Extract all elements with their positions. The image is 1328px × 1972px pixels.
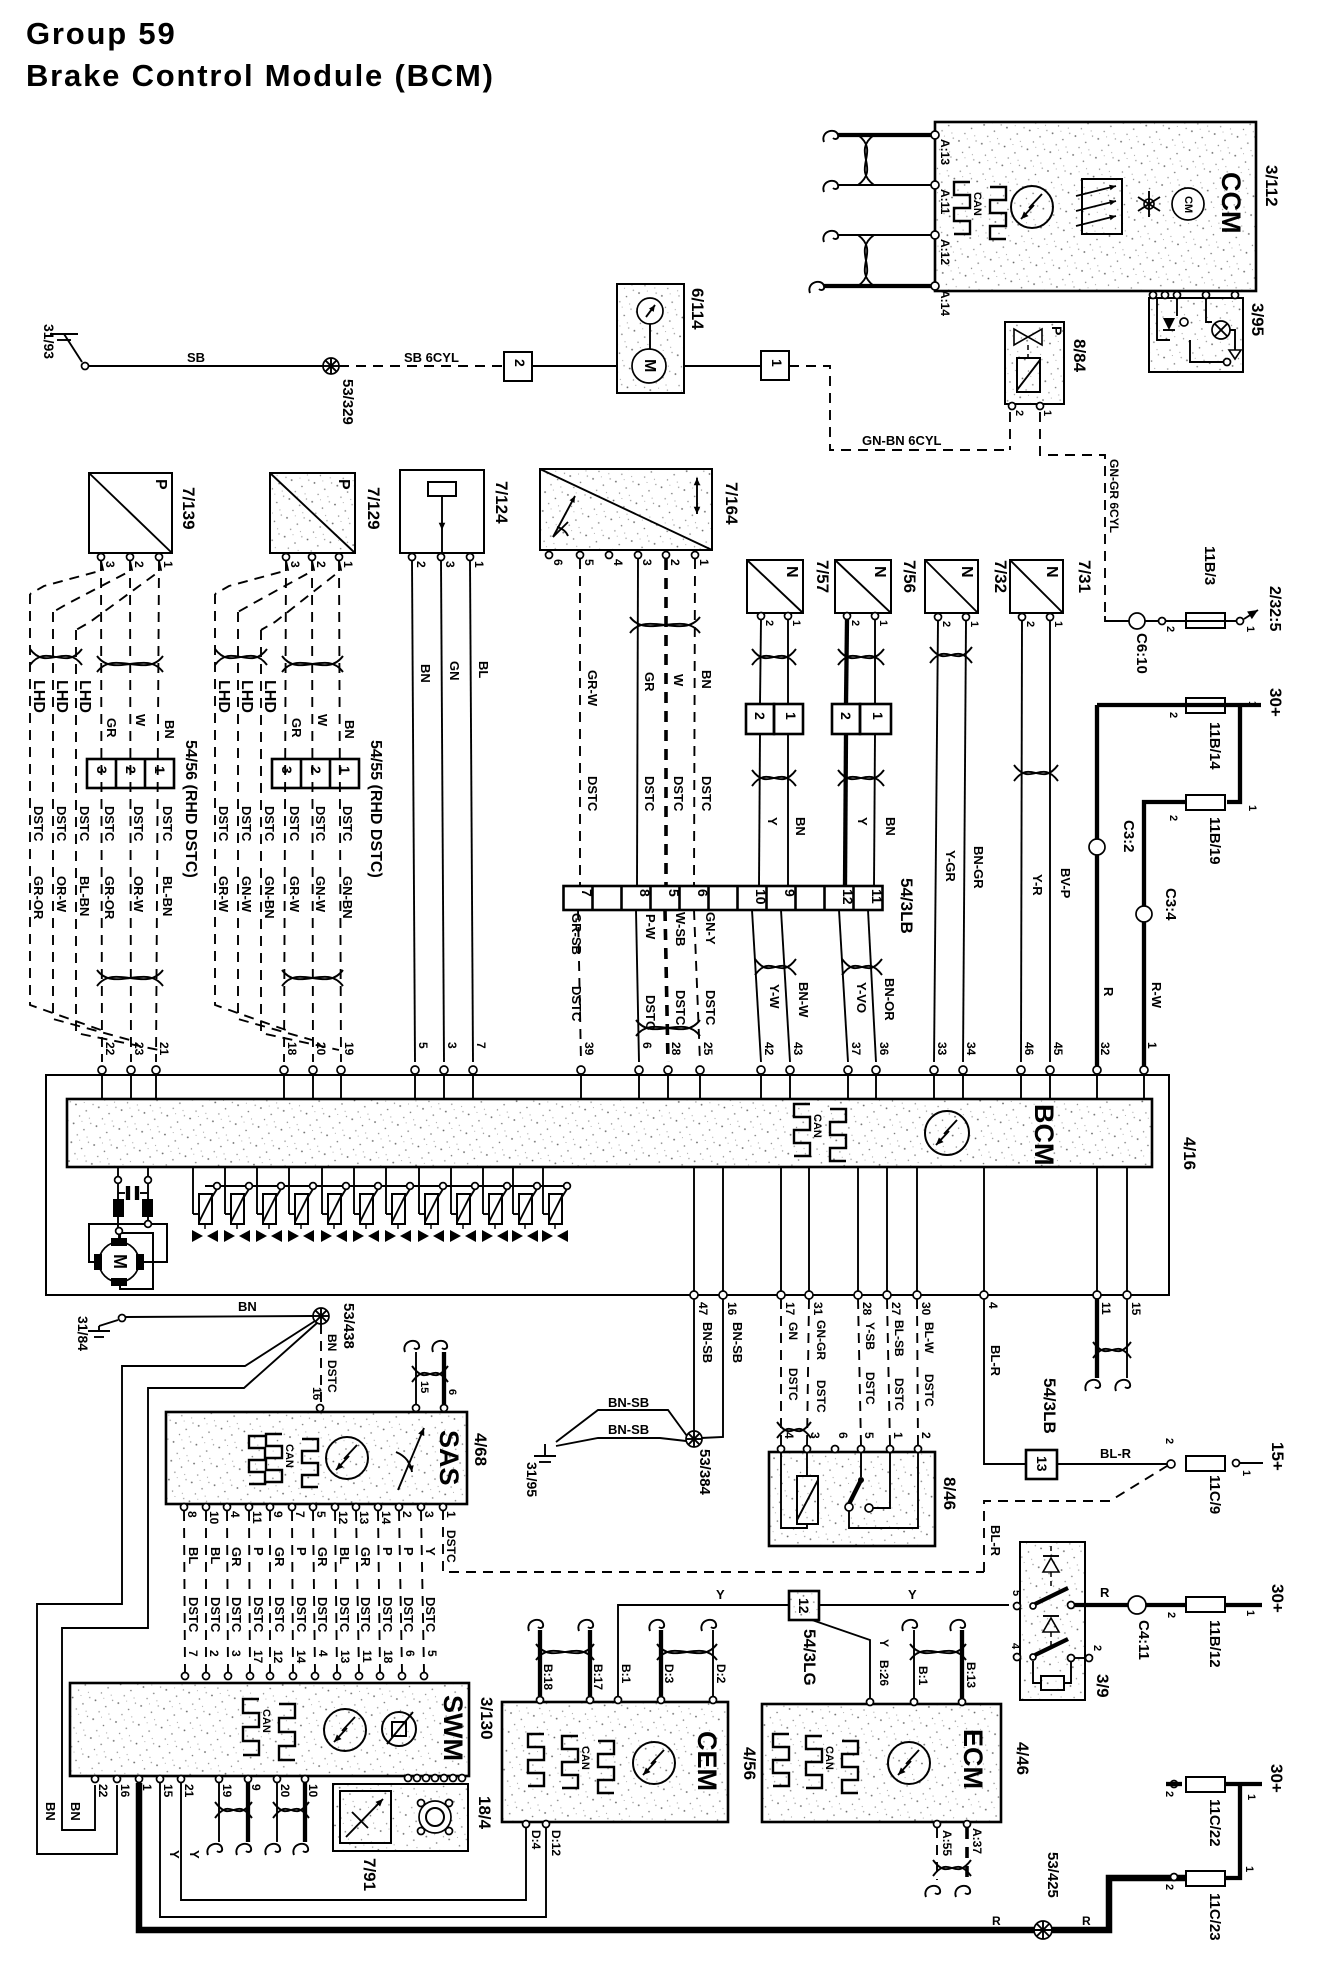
CCM CAN symbol: [954, 182, 970, 234]
svg-text:2: 2: [919, 1432, 933, 1439]
svg-text:2: 2: [400, 1511, 414, 1518]
SWM K-line symbol: [324, 1709, 366, 1751]
wire CEM D:3 (cut, thick): [659, 1630, 663, 1696]
BCM inner strip: [67, 1099, 1152, 1167]
svg-text:18: 18: [381, 1650, 395, 1664]
wire 7/164-3 GR: [637, 559, 638, 886]
wire SWM 21 Y to CEM D:4: [181, 1783, 526, 1900]
svg-text:4: 4: [228, 1511, 242, 1518]
svg-text:1: 1: [1246, 701, 1258, 707]
wire BL-R DSTC (dashed) SAS1 to 11C/9: [443, 1510, 984, 1572]
fuse 11C/22: [1186, 1777, 1225, 1792]
svg-text:DSTC: DSTC: [423, 1597, 438, 1633]
svg-text:BN: BN: [793, 817, 808, 836]
svg-text:GR: GR: [315, 1547, 330, 1567]
SAS pin 1: [440, 1504, 447, 1511]
3/9 pin 2: [1068, 1655, 1075, 1662]
svg-text:7/32: 7/32: [991, 560, 1010, 593]
wire 11C/23 to 11C/22 (thick): [1225, 1784, 1240, 1878]
svg-text:Y: Y: [167, 1850, 182, 1859]
ECM squarewave symbol: [773, 1734, 789, 1786]
svg-text:BL-R: BL-R: [988, 1345, 1003, 1377]
svg-text:DSTC: DSTC: [703, 990, 718, 1026]
svg-text:C6:10: C6:10: [1133, 633, 1150, 674]
svg-text:11C/9: 11C/9: [1206, 1475, 1223, 1514]
svg-text:16: 16: [725, 1302, 739, 1316]
wire A:14 (thick): [824, 284, 931, 288]
svg-text:Y: Y: [855, 817, 870, 826]
svg-text:DSTC: DSTC: [699, 776, 714, 812]
svg-text:4: 4: [316, 1650, 330, 1657]
svg-text:DSTC: DSTC: [673, 990, 688, 1026]
module 3/95 box: [1149, 298, 1243, 372]
svg-text:B:13: B:13: [964, 1662, 978, 1688]
svg-text:54/3LB: 54/3LB: [897, 878, 916, 934]
wire 7/31-2 Y-R: [1021, 621, 1022, 1062]
svg-text:BN: BN: [342, 720, 357, 739]
twisted pair D:3/D:2: [657, 1644, 717, 1660]
svg-text:DSTC: DSTC: [401, 1597, 416, 1633]
svg-text:A:13: A:13: [938, 139, 952, 165]
wire 54/3LB-7 GR-SB DSTC to BCM 39: [578, 910, 581, 1062]
svg-text:2: 2: [1165, 1612, 1177, 1618]
wire 7/124-3 GN: [441, 561, 444, 1062]
svg-text:54/3LB: 54/3LB: [1040, 1378, 1059, 1434]
wire 54/3LB-8 P-W to BCM 6: [636, 910, 639, 1062]
twisted pair A:12/A:14: [858, 235, 874, 286]
fuse 11B/14: [1186, 698, 1225, 713]
svg-text:CAN: CAN: [579, 1746, 591, 1770]
svg-text:11: 11: [869, 889, 885, 904]
ECM top pins: [867, 1699, 874, 1706]
svg-text:18: 18: [285, 1042, 299, 1056]
wire Y to 3/9 pin 5: [819, 1604, 1009, 1606]
svg-text:13: 13: [357, 1511, 371, 1525]
svg-text:Y-W: Y-W: [767, 984, 782, 1009]
svg-text:43: 43: [791, 1042, 805, 1056]
svg-text:BN-SB: BN-SB: [700, 1322, 715, 1363]
svg-text:2: 2: [1163, 1884, 1175, 1890]
twisted pair B:1/B:13: [910, 1644, 966, 1660]
svg-text:2: 2: [414, 561, 428, 568]
svg-text:7/124: 7/124: [492, 481, 511, 524]
7/56 pins: [844, 613, 851, 620]
svg-text:B:17: B:17: [591, 1664, 605, 1690]
wire BCM 27 BL-SB DSTC: [887, 1299, 890, 1445]
svg-text:GN-W: GN-W: [313, 876, 328, 913]
module BCM 4/16 outer box: [46, 1075, 1169, 1295]
8/46 internal relay: [781, 1453, 807, 1528]
svg-text:1: 1: [1244, 1610, 1256, 1616]
svg-text:DSTC: DSTC: [444, 1530, 458, 1563]
CEM squarewave symbol: [528, 1734, 544, 1786]
svg-text:GN-BN 6CYL: GN-BN 6CYL: [862, 433, 942, 448]
svg-text:1: 1: [161, 561, 175, 568]
wire CEM B:1 Y to 54/3LG 12: [618, 1605, 789, 1696]
wire BCM 16 BN-SB: [701, 1299, 723, 1438]
svg-text:53/438: 53/438: [340, 1303, 357, 1349]
svg-text:BL: BL: [186, 1547, 201, 1564]
module SWM 3/130 box: [70, 1683, 469, 1776]
svg-text:1: 1: [790, 620, 802, 626]
svg-text:7/164: 7/164: [722, 482, 741, 525]
3/9 diode 2: [1043, 1618, 1059, 1632]
svg-text:2: 2: [1167, 815, 1179, 821]
svg-text:DSTC: DSTC: [294, 1597, 309, 1633]
svg-text:5: 5: [425, 1650, 439, 1657]
SWM bottom pins: [92, 1776, 99, 1783]
svg-text:BN: BN: [418, 664, 433, 683]
svg-text:GR: GR: [642, 672, 657, 692]
7/164 pins: [546, 552, 553, 559]
svg-text:A:37: A:37: [970, 1828, 984, 1854]
wire 7/124-2 BN: [412, 561, 415, 1062]
svg-text:10: 10: [753, 889, 769, 905]
wire to 15+: [1233, 1460, 1240, 1467]
svg-text:23: 23: [132, 1042, 146, 1056]
BCM solenoid valve array: [205, 1185, 568, 1187]
svg-text:3: 3: [422, 1511, 436, 1518]
wire CEM D:2 (cut): [712, 1630, 714, 1696]
svg-text:DSTC: DSTC: [671, 776, 686, 812]
svg-text:SB 6CYL: SB 6CYL: [404, 350, 459, 365]
svg-text:3/130: 3/130: [477, 1697, 496, 1740]
svg-text:2: 2: [314, 561, 328, 568]
connector C3:4: [1136, 906, 1152, 922]
svg-text:GN-W: GN-W: [239, 876, 254, 913]
svg-text:OR-W: OR-W: [131, 876, 146, 913]
svg-text:11: 11: [360, 1650, 374, 1663]
wire BCM 11 (thick): [1095, 1299, 1099, 1378]
svg-text:53/384: 53/384: [696, 1449, 713, 1496]
svg-text:GN: GN: [447, 661, 462, 681]
svg-text:3: 3: [279, 766, 295, 774]
svg-text:4/16: 4/16: [1180, 1137, 1199, 1170]
SAS CAN symbol: [266, 1434, 282, 1482]
svg-text:BL-W: BL-W: [922, 1322, 936, 1354]
svg-text:SWM: SWM: [438, 1695, 468, 1761]
svg-text:DSTC: DSTC: [287, 806, 302, 842]
module SAS 4/68 box: [166, 1412, 467, 1504]
svg-text:DSTC: DSTC: [216, 806, 231, 842]
svg-text:DSTC: DSTC: [186, 1597, 201, 1633]
svg-text:11B/12: 11B/12: [1206, 1620, 1223, 1668]
svg-text:21: 21: [182, 1784, 196, 1798]
wire ECM B:1 (cut): [913, 1630, 915, 1698]
svg-text:2: 2: [308, 766, 324, 774]
svg-text:BL: BL: [208, 1547, 223, 1564]
svg-text:N: N: [871, 566, 888, 578]
svg-text:1: 1: [877, 620, 889, 626]
svg-text:12: 12: [840, 889, 856, 905]
svg-text:DSTC: DSTC: [160, 806, 175, 842]
svg-text:GN-GR 6CYL: GN-GR 6CYL: [1107, 459, 1121, 533]
wire bus to 11C/23 (extra thick): [1052, 1878, 1185, 1930]
svg-text:GR-W: GR-W: [216, 876, 231, 913]
svg-text:4: 4: [611, 559, 625, 566]
svg-text:SB: SB: [187, 350, 205, 365]
SAS-SWM wiring (12 DSTC wires): [181, 1504, 188, 1511]
wheel sensor 7/31 box: [1010, 560, 1063, 613]
3/95 pins: [1150, 292, 1157, 299]
wire 7/56-2 Y (thick): [846, 620, 847, 704]
svg-text:6: 6: [695, 889, 711, 897]
svg-text:8/46: 8/46: [940, 1477, 959, 1510]
svg-text:11: 11: [250, 1511, 264, 1524]
SAS K-line symbol: [326, 1437, 368, 1479]
svg-text:27: 27: [889, 1302, 903, 1316]
wire SWM 15 Y to CEM D:12: [160, 1783, 546, 1917]
wire 7/57-2 Y: [760, 620, 761, 704]
svg-text:P: P: [251, 1547, 266, 1556]
svg-text:DSTC: DSTC: [642, 776, 657, 812]
8/84 valve symbol: [1014, 329, 1028, 345]
svg-text:GR: GR: [272, 1547, 287, 1567]
wire rail 2 (thick): [1227, 707, 1240, 802]
svg-text:2: 2: [123, 766, 139, 774]
svg-text:32: 32: [1098, 1042, 1112, 1056]
svg-text:B:1: B:1: [619, 1664, 633, 1684]
splice 53/329: [323, 358, 339, 374]
svg-text:3: 3: [640, 559, 654, 566]
svg-text:DSTC: DSTC: [569, 986, 584, 1022]
connector 1 (7/57): [774, 704, 803, 734]
connector pin 2: [504, 352, 532, 381]
wire 7/32-1 BN-GR: [963, 621, 966, 1062]
wire A:11: [838, 184, 931, 186]
wire A:13 (thick): [838, 133, 931, 137]
wire splice to SWM 16: [37, 1321, 315, 1854]
svg-text:11B/14: 11B/14: [1206, 722, 1223, 770]
svg-text:3/95: 3/95: [1248, 303, 1267, 336]
svg-text:BN: BN: [43, 1802, 58, 1821]
svg-text:BL-R: BL-R: [1100, 1446, 1132, 1461]
BCM CAN symbol: [794, 1104, 810, 1156]
svg-text:3: 3: [288, 561, 302, 568]
svg-text:16: 16: [118, 1784, 132, 1798]
svg-text:R-W: R-W: [1149, 982, 1164, 1009]
CEM top pins: [537, 1697, 544, 1704]
wire BCM 17 GN DSTC: [780, 1299, 782, 1445]
svg-text:BL: BL: [337, 1547, 352, 1564]
svg-text:BN-SB: BN-SB: [608, 1395, 649, 1410]
svg-text:Y: Y: [187, 1850, 202, 1859]
svg-text:7/139: 7/139: [179, 487, 198, 530]
fuse 11B/12: [1186, 1597, 1225, 1612]
CEM K-line symbol: [633, 1742, 675, 1784]
svg-text:M: M: [110, 1254, 130, 1269]
svg-text:BV-P: BV-P: [1058, 868, 1073, 899]
fluid pump 6/114: [617, 284, 684, 393]
svg-text:9: 9: [271, 1511, 285, 1518]
svg-text:DSTC: DSTC: [337, 1597, 352, 1633]
svg-text:1: 1: [1145, 1042, 1159, 1049]
7/31 pins: [1019, 614, 1026, 621]
wire ECM B:13 (cut, thick): [960, 1630, 964, 1698]
svg-text:16: 16: [310, 1387, 324, 1401]
svg-text:19: 19: [342, 1042, 356, 1056]
svg-text:BN: BN: [238, 1299, 257, 1314]
wire BCM 28 Y-SB DSTC: [858, 1299, 861, 1445]
svg-text:13: 13: [1034, 1456, 1050, 1472]
7/32 pins: [935, 614, 942, 621]
svg-text:R: R: [1082, 1914, 1091, 1928]
svg-text:BL-R: BL-R: [988, 1525, 1003, 1557]
svg-text:M: M: [641, 359, 658, 372]
svg-text:12: 12: [271, 1650, 285, 1664]
ECM CAN symbol: [806, 1736, 822, 1788]
svg-text:Y-SB: Y-SB: [863, 1322, 877, 1350]
wire 7/124-1 BL: [470, 561, 473, 1062]
wire 54/3LB-9 BN-W to BCM 43: [781, 910, 790, 1062]
svg-text:Y: Y: [908, 1587, 917, 1602]
svg-text:45: 45: [1051, 1042, 1065, 1056]
svg-text:DSTC: DSTC: [251, 1597, 266, 1633]
svg-text:3: 3: [443, 561, 457, 568]
connector pin 1: [761, 351, 789, 380]
svg-text:2: 2: [1013, 410, 1025, 416]
svg-text:28: 28: [860, 1302, 874, 1316]
wire 7/164-1 BN DSTC: [694, 559, 695, 886]
wire 7/31-1 BV-P: [1049, 621, 1051, 1062]
svg-text:3: 3: [808, 1432, 822, 1439]
svg-text:54/3LG: 54/3LG: [800, 1629, 819, 1686]
twisted pair 11/15: [1093, 1342, 1131, 1358]
wire Y branch to ECM B:26: [812, 1620, 870, 1698]
svg-text:15: 15: [1129, 1302, 1143, 1316]
svg-text:Brake Control Module (BCM): Brake Control Module (BCM): [26, 58, 495, 93]
svg-text:3: 3: [445, 1042, 459, 1049]
svg-text:18/4: 18/4: [475, 1796, 494, 1830]
CCM pin A:13: [931, 131, 939, 139]
svg-text:GR-SB: GR-SB: [569, 913, 584, 955]
svg-text:2: 2: [132, 561, 146, 568]
connector 54/3LB row: [564, 886, 883, 910]
svg-text:Y: Y: [765, 817, 780, 826]
svg-text:31/93: 31/93: [41, 324, 57, 359]
svg-text:DSTC: DSTC: [77, 806, 92, 842]
8/84 coil: [1017, 358, 1040, 392]
svg-text:BN-OR: BN-OR: [882, 978, 897, 1021]
wire SWM 10 (cut, thick): [303, 1783, 307, 1842]
wire ECM A:37 (cut, thick): [965, 1828, 969, 1880]
svg-text:D:2: D:2: [714, 1664, 728, 1684]
wire BN-SB to ground (upper): [556, 1410, 687, 1442]
connector 2 (7/56): [832, 704, 860, 734]
wire 7/32-2 Y-GR: [934, 621, 938, 1062]
svg-text:39: 39: [582, 1042, 596, 1056]
svg-text:DSTC: DSTC: [239, 806, 254, 842]
svg-text:4/68: 4/68: [471, 1433, 490, 1466]
svg-text:1: 1: [1041, 410, 1053, 416]
CCM pin A:14: [931, 282, 939, 290]
wire 54/3LB-12 Y-VO to BCM 37: [839, 910, 848, 1062]
svg-text:DSTC: DSTC: [208, 1597, 223, 1633]
svg-text:B:1: B:1: [916, 1666, 930, 1686]
svg-text:Y-GR: Y-GR: [943, 850, 958, 882]
svg-text:CAN: CAN: [260, 1709, 272, 1733]
ground 31/95: [544, 1444, 546, 1456]
svg-text:1: 1: [697, 559, 711, 566]
wire CEM B:18 (cut, thick): [538, 1630, 542, 1696]
svg-text:25: 25: [701, 1042, 715, 1056]
svg-text:5: 5: [666, 889, 682, 897]
wire to 11B/3: [1145, 620, 1236, 622]
svg-text:54/55 (RHD DSTC): 54/55 (RHD DSTC): [367, 740, 384, 878]
svg-text:31/84: 31/84: [75, 1316, 91, 1351]
7/129 pins: [283, 554, 290, 561]
svg-text:DSTC: DSTC: [315, 1597, 330, 1633]
wire 8/84 pin2 stub (dashed): [1009, 412, 1011, 450]
svg-text:20: 20: [278, 1784, 292, 1798]
svg-text:21: 21: [157, 1042, 171, 1056]
svg-text:D:12: D:12: [549, 1830, 563, 1856]
svg-text:7/31: 7/31: [1075, 560, 1094, 593]
svg-text:9: 9: [782, 889, 798, 897]
svg-text:31: 31: [811, 1302, 825, 1316]
svg-text:GR-OR: GR-OR: [31, 876, 46, 920]
wire BCM 15: [1126, 1299, 1128, 1378]
twisted pair BCM 37/36: [842, 959, 882, 975]
module 7/91 18/4 box: [333, 1784, 468, 1851]
twisted pairs 7/57: [752, 649, 796, 665]
svg-text:C4:11: C4:11: [1135, 1620, 1152, 1660]
svg-text:1: 1: [968, 621, 980, 627]
svg-text:53/329: 53/329: [339, 379, 356, 425]
svg-text:GR-W: GR-W: [585, 670, 600, 707]
svg-text:6/114: 6/114: [688, 288, 707, 330]
svg-text:GR-OR: GR-OR: [102, 876, 117, 920]
wire BCM 47 BN-SB: [693, 1299, 695, 1431]
svg-text:BCM: BCM: [1029, 1104, 1059, 1166]
svg-text:OR-W: OR-W: [54, 876, 69, 913]
svg-text:GR: GR: [289, 718, 304, 738]
svg-text:GN-Y: GN-Y: [703, 912, 718, 945]
svg-text:8/84: 8/84: [1070, 339, 1089, 373]
svg-text:P: P: [152, 479, 169, 490]
svg-text:33: 33: [935, 1042, 949, 1056]
svg-text:BN-GR: BN-GR: [971, 846, 986, 889]
svg-text:30+: 30+: [1268, 1584, 1287, 1613]
connector 2 (7/57): [746, 704, 774, 734]
svg-text:N: N: [1043, 566, 1060, 578]
svg-text:11: 11: [1099, 1302, 1113, 1315]
splice 53/384: [686, 1431, 702, 1447]
wheel sensor 7/57 box: [747, 560, 803, 613]
pressure sensor 7/129 box: [270, 473, 355, 553]
svg-text:20: 20: [314, 1042, 328, 1056]
wire 54/3LB-5 W-SB DSTC to BCM 29 (thick): [665, 910, 668, 1062]
svg-text:30+: 30+: [1267, 1764, 1286, 1793]
wire to 6/114: [532, 365, 617, 367]
svg-text:5: 5: [1010, 1590, 1022, 1596]
svg-text:GN: GN: [786, 1322, 800, 1340]
svg-text:P: P: [294, 1547, 309, 1556]
3/9 coil: [1041, 1676, 1064, 1690]
svg-text:6: 6: [446, 1389, 458, 1395]
svg-text:BN-SB: BN-SB: [608, 1422, 649, 1437]
wire 7/164-2 W DSTC (thick): [664, 559, 668, 886]
svg-text:BN: BN: [68, 1802, 83, 1821]
fuse 11B/3: [1186, 613, 1225, 628]
svg-text:Y: Y: [877, 1639, 891, 1647]
SAS top pins 15/6: [413, 1405, 420, 1412]
svg-text:1: 1: [472, 561, 486, 568]
svg-text:P-W: P-W: [643, 914, 658, 940]
wire CEM B:17 (cut, thick): [588, 1630, 592, 1696]
svg-text:SAS: SAS: [434, 1430, 464, 1486]
svg-text:DSTC: DSTC: [272, 1597, 287, 1633]
